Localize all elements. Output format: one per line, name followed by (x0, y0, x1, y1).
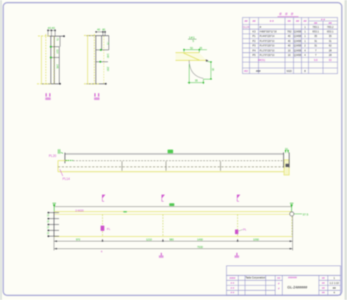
stiffener weld symbol 1 (101, 226, 105, 231)
svg-text:31: 31 (329, 39, 332, 43)
beam hidden flange dashed line (73, 160, 288, 162)
dim line 2 (54, 248, 293, 250)
lower beam bolt row dim lines (48, 213, 60, 237)
svg-text:PL476*226*10: PL476*226*10 (260, 46, 276, 48)
dim line 1 arrows (54, 239, 293, 242)
dim line 2 arrows (54, 248, 293, 250)
svg-text:GL-24#####: GL-24##### (287, 285, 307, 289)
flange fill (176, 53, 207, 61)
detail top dim extension (199, 49, 207, 51)
beam right end yellow plate (284, 160, 289, 175)
view B top yellow dashes (84, 34, 95, 36)
beam center dashed line (58, 166, 288, 168)
lower beam bolt dim labels (46, 214, 48, 235)
beam left end vertical (64, 153, 66, 164)
view B step line 2 (96, 61, 108, 63)
detail right dim line (203, 62, 212, 79)
weld point mark (206, 59, 209, 62)
svg-text:##: ## (252, 19, 256, 23)
view A yellow dashed bolt line (53, 36, 55, 84)
svg-text:# #: # # (270, 19, 274, 23)
weld flag 1 (102, 199, 104, 202)
view B top dim line (96, 31, 106, 36)
view A bottom yellow dashes (37, 83, 51, 85)
svg-text:Q345B: Q345B (294, 40, 302, 43)
svg-text:###: ### (256, 69, 261, 73)
dim line 1 (54, 240, 293, 242)
svg-text:Q345B: Q345B (294, 31, 302, 34)
view A bottom edge arrow (59, 83, 61, 85)
svg-text:###: ### (279, 12, 297, 17)
svg-text:980: 980 (169, 237, 174, 241)
svg-text:##: ## (296, 19, 300, 23)
right screen edge stripe (345, 0, 347, 300)
right end circle marker (290, 212, 294, 216)
svg-text:62: 62 (329, 44, 332, 48)
svg-text:PL: PL (243, 227, 247, 231)
flange bevel line (184, 53, 200, 60)
beam stiffener tick 0 (121, 161, 123, 171)
svg-text:# #: # # (231, 291, 235, 295)
view A top edge arrow (63, 35, 65, 37)
svg-text:653.1: 653.1 (312, 30, 319, 34)
svg-text:PL: PL (107, 227, 111, 231)
svg-text:40: 40 (288, 39, 291, 43)
svg-text:10: 10 (288, 53, 291, 57)
svg-text:93: 93 (329, 58, 332, 62)
view A yellow dashed centerline (45, 34, 47, 85)
svg-text:H488*300*11*18: H488*300*11*18 (260, 32, 278, 34)
beam right end mark (286, 164, 289, 167)
svg-text:PL446*226*14: PL446*226*14 (260, 36, 276, 38)
weld flag head (162, 195, 165, 199)
svg-text:40: 40 (288, 44, 291, 48)
detail top dim arrows (183, 49, 200, 51)
svg-text:PL20: PL20 (49, 154, 57, 158)
svg-text:783.1: 783.1 (312, 25, 319, 29)
dim extension left (53, 237, 55, 251)
flange bottom line (176, 59, 207, 61)
svg-text:110: 110 (56, 49, 60, 54)
svg-text:##: ## (303, 19, 307, 23)
svg-text:28: 28 (329, 53, 332, 57)
svg-text:9.8: 9.8 (314, 58, 318, 62)
elevation mark right (290, 203, 294, 211)
view A web line right (53, 36, 55, 84)
bolt line 4 (291, 217, 293, 236)
svg-text:140: 140 (106, 54, 110, 59)
svg-text:782: 782 (287, 30, 292, 34)
dim line 1 labels (76, 237, 260, 241)
svg-text:# #: # # (321, 17, 325, 21)
svg-text:P4: P4 (252, 48, 256, 52)
svg-text:PL176*150*10: PL176*150*10 (260, 50, 276, 52)
view A bottom edge (41, 83, 60, 85)
weld flag 2 (162, 199, 164, 202)
svg-text:P3: P3 (252, 44, 256, 48)
right values (330, 276, 340, 295)
elevation reference line (54, 206, 291, 208)
svg-text:31: 31 (314, 44, 317, 48)
BOM data rows (243, 25, 334, 73)
stiffener weld symbol 2 (235, 230, 238, 235)
svg-text:P1: P1 (252, 34, 256, 38)
svg-text:####: #### (230, 276, 236, 280)
title block left labels (230, 276, 236, 295)
view A section mark (45, 93, 50, 100)
view B yellow dashed bolt line (103, 36, 105, 84)
weld flag head (237, 195, 240, 199)
svg-text:##: ## (329, 21, 333, 25)
elevation mark left arrowhead (53, 204, 56, 207)
view A top yellow dashes (38, 35, 50, 37)
detail bottom dim arrows (188, 82, 204, 84)
bolt line 2 (162, 215, 164, 237)
svg-text:31: 31 (314, 39, 317, 43)
view B dim chain labels (106, 42, 110, 72)
green tick on beam top line (123, 211, 126, 213)
svg-text:1490: 1490 (197, 237, 203, 241)
elevation mark right arrowhead (290, 204, 293, 207)
view A right edge (58, 47, 60, 84)
BOM title underline (278, 16, 299, 18)
svg-text:1090: 1090 (253, 237, 259, 241)
svg-text:40: 40 (97, 28, 101, 32)
elevation mark left (53, 203, 57, 211)
svg-text:##: ## (314, 21, 318, 25)
svg-text:PL176*150*10: PL176*150*10 (260, 55, 276, 57)
bolt line 3 (237, 215, 239, 237)
svg-text:######: ###### (288, 276, 297, 280)
svg-text:970: 970 (76, 237, 81, 241)
view A top box right vertical (59, 36, 61, 47)
svg-text:K3: K3 (252, 30, 256, 34)
svg-text:35: 35 (329, 34, 332, 38)
beam right end vertical 2 (288, 152, 290, 167)
web stub line (188, 60, 190, 63)
view B section mark (94, 93, 99, 100)
svg-text:##: ## (288, 19, 292, 23)
view B bottom yellow dashes (84, 83, 100, 85)
svg-text:Q345B: Q345B (294, 35, 302, 38)
view A dim arrows (50, 46, 52, 59)
svg-text:Q345B: Q345B (294, 45, 302, 48)
svg-text:10: 10 (288, 48, 291, 52)
view A left yellow edge (40, 36, 42, 84)
view A web line left (50, 36, 52, 84)
view A top dim line (48, 29, 56, 36)
svg-text:1210: 1210 (146, 237, 152, 241)
stiffener leader 2 (239, 230, 243, 231)
beam left step dim ticks (58, 149, 63, 154)
svg-text:653.1: 653.1 (327, 30, 334, 34)
svg-text:Q345B: Q345B (294, 49, 302, 52)
view B web line (95, 36, 97, 84)
dim extension right (292, 216, 294, 251)
beam right end green marks (285, 150, 289, 154)
view B box right vertical (101, 36, 103, 50)
beam right end vertical 1 (283, 152, 285, 167)
left screen edge stripe (0, 0, 2, 300)
view B bottom edge arrow (105, 83, 107, 85)
detail right dim arrows (210, 61, 212, 79)
section mark 4 right (235, 253, 240, 258)
weld flag 1 head (102, 195, 105, 199)
scallop arc (189, 63, 203, 79)
view B bottom edge (87, 83, 107, 85)
elevation line green tick 2 (169, 203, 174, 206)
svg-text:PL476*226*10: PL476*226*10 (260, 41, 276, 43)
svg-text:M20: M20 (287, 69, 293, 73)
BOM header text (244, 17, 332, 25)
svg-text:783.2: 783.2 (327, 25, 334, 29)
beam left step horizontal yellow (58, 160, 69, 162)
view B step line 1 (96, 49, 109, 51)
section mark 4 left (159, 253, 164, 258)
beam top flange line (65, 153, 284, 155)
bolt line 1 (102, 215, 104, 237)
right circle leader (294, 213, 302, 215)
detail label underline (188, 38, 197, 40)
svg-text:PL14: PL14 (63, 177, 71, 181)
right labels (322, 276, 325, 295)
view A dim chain labels (56, 38, 60, 69)
view A top dim ticks (47, 30, 56, 32)
beam label PL14 leader (60, 169, 63, 176)
BOM table grid (243, 18, 338, 74)
svg-text:245: 245 (56, 64, 60, 69)
title block upper strip (227, 266, 341, 276)
lower beam top edge line 2 (54, 213, 291, 215)
svg-text:Q345B: Q345B (294, 54, 302, 57)
beam left lower edge yellow vertical (57, 161, 59, 172)
svg-text:GL24: GL24 (243, 25, 250, 29)
view A step line 2 (51, 57, 60, 59)
detail top dim line (184, 49, 199, 53)
flange top line (176, 52, 200, 54)
beam left weld green (66, 159, 74, 161)
svg-text:# #: # # (231, 281, 235, 285)
view A step line 1 (51, 46, 60, 48)
svg-text:1:2 1:10: 1:2 1:10 (330, 281, 340, 285)
view A top edge (47, 35, 63, 37)
svg-text:# #: # # (231, 286, 235, 290)
view B dim arrows (99, 49, 102, 63)
beam mid green mark (168, 150, 174, 154)
svg-text:Tada Corporation: Tada Corporation (245, 276, 265, 280)
detail bottom dim line (188, 64, 204, 84)
lower beam bottom edge (54, 236, 293, 238)
view B right edge upper (108, 36, 110, 50)
svg-text:35: 35 (314, 34, 317, 38)
view B left yellow edge (87, 36, 89, 84)
svg-text:250: 250 (106, 67, 110, 72)
lower beam bolt row arrowheads (48, 212, 50, 237)
beam stiffener tick 1 (165, 161, 167, 171)
svg-text:28: 28 (329, 48, 332, 52)
lower beam top edge line 1 (54, 211, 291, 213)
view B top dim ticks (95, 31, 106, 33)
beam bottom yellow line (58, 171, 289, 173)
svg-text:##(%): ##(%) (258, 58, 265, 62)
title block main grid (227, 275, 341, 295)
svg-text:40: 40 (288, 34, 291, 38)
svg-text:P2: P2 (252, 39, 256, 43)
svg-text:##: ## (244, 19, 248, 23)
beam stiffener tick 2 (220, 161, 222, 171)
svg-text:2-M20: 2-M20 (75, 208, 84, 212)
svg-text:7930: 7930 (197, 245, 203, 249)
lower beam left end plate (53, 212, 55, 237)
view B yellow dashed centerline (93, 34, 95, 85)
weld flag 3 (237, 199, 239, 202)
view B top edge (87, 35, 110, 37)
svg-text:P5: P5 (252, 53, 256, 57)
svg-text:37.5: 37.5 (303, 212, 309, 216)
